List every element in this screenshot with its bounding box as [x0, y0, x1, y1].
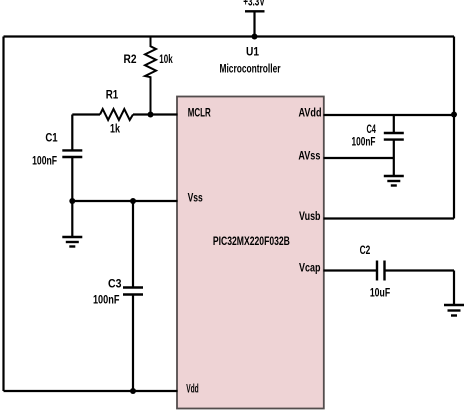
ground under C4 — [384, 176, 404, 186]
svg-text:10k: 10k — [159, 54, 173, 66]
ground under C2 — [444, 305, 464, 316]
svg-text:Vdd: Vdd — [186, 383, 199, 395]
svg-text:C1: C1 — [45, 133, 58, 145]
svg-text:C4: C4 — [366, 124, 376, 136]
capacitor C1 — [32, 115, 82, 202]
svg-text:100nF: 100nF — [352, 136, 376, 148]
wire Vusb — [324, 217, 455, 219]
wire C2 to ground — [453, 271, 455, 306]
wire MCLR right segment — [133, 113, 178, 115]
resistor R2 — [124, 37, 174, 115]
svg-text:+3.3V: +3.3V — [243, 0, 265, 9]
wire MCLR left segment — [72, 113, 100, 115]
svg-text:C3: C3 — [108, 279, 122, 291]
svg-text:AVss: AVss — [298, 150, 320, 162]
wire Vss — [72, 200, 177, 202]
svg-text:R2: R2 — [124, 54, 137, 66]
svg-text:Vusb: Vusb — [299, 211, 321, 223]
wire top +3.3V rail — [4, 35, 455, 37]
node MCLR junction — [148, 112, 154, 118]
wire bottom Vdd — [4, 390, 178, 392]
node AVdd right junction — [451, 112, 457, 118]
svg-text:AVdd: AVdd — [299, 108, 322, 120]
resistor R1 — [100, 89, 133, 135]
wire Vcap right segment — [385, 269, 455, 271]
svg-text:C2: C2 — [360, 245, 371, 257]
svg-text:Vss: Vss — [188, 193, 203, 205]
node Vss-C3 junction — [130, 198, 136, 204]
ground under C1 — [62, 201, 82, 247]
svg-text:R1: R1 — [106, 89, 119, 101]
wire AVss — [324, 157, 394, 159]
IC U1 body — [177, 97, 324, 409]
wire right rail — [453, 37, 455, 219]
svg-text:100nF: 100nF — [93, 294, 120, 306]
svg-text:Microcontroller: Microcontroller — [220, 64, 281, 76]
wire AVdd — [324, 114, 455, 116]
wire left rail — [2, 37, 4, 392]
svg-text:1k: 1k — [110, 124, 120, 136]
svg-text:U1: U1 — [246, 47, 260, 59]
power +3.3V — [243, 0, 265, 37]
wire Vcap left segment — [324, 269, 378, 271]
capacitor C4 — [352, 115, 404, 176]
node +3.3V junction — [252, 34, 258, 40]
capacitor C2 — [360, 245, 391, 299]
svg-text:10uF: 10uF — [370, 287, 390, 299]
svg-text:Vcap: Vcap — [299, 263, 321, 275]
svg-text:PIC32MX220F032B: PIC32MX220F032B — [213, 236, 290, 248]
node Vss-C1 junction — [69, 198, 75, 204]
svg-text:100nF: 100nF — [32, 155, 57, 167]
capacitor C3 — [93, 201, 143, 391]
node Vdd-C3 junction — [130, 388, 136, 394]
svg-text:MCLR: MCLR — [188, 108, 211, 120]
